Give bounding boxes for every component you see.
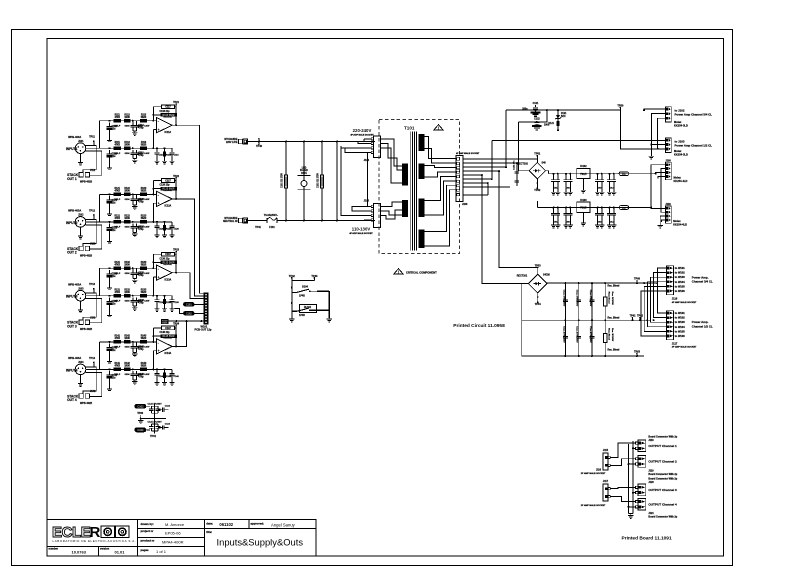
svg-text:22u: 22u xyxy=(112,304,117,306)
svg-text:R115 560R: R115 560R xyxy=(163,114,175,117)
svg-text:BIAS: BIAS xyxy=(162,322,168,325)
svg-text:Printed Board 11.1091: Printed Board 11.1091 xyxy=(622,536,672,542)
svg-text:TP31: TP31 xyxy=(150,435,157,438)
svg-text:47K5: 47K5 xyxy=(114,337,120,340)
svg-text:C1x6: C1x6 xyxy=(165,406,171,408)
svg-text:J120: J120 xyxy=(648,481,654,484)
svg-text:1K00: 1K00 xyxy=(124,117,130,119)
svg-text:470p: 470p xyxy=(138,200,144,203)
svg-text:01.01: 01.01 xyxy=(115,549,126,554)
svg-text:4P AMP MALE SOCKET: 4P AMP MALE SOCKET xyxy=(672,346,697,349)
svg-text:100u: 100u xyxy=(553,188,558,190)
svg-text:R118: R118 xyxy=(166,155,172,157)
svg-text:OUT 4: OUT 4 xyxy=(67,398,77,402)
svg-text:100n: 100n xyxy=(566,221,571,223)
svg-text:562R: 562R xyxy=(141,366,147,368)
svg-text:WPB-403A: WPB-403A xyxy=(68,283,81,287)
svg-text:2P AMP MALE SOCKET: 2P AMP MALE SOCKET xyxy=(581,504,606,507)
svg-text:22u: 22u xyxy=(112,129,117,131)
svg-text:+: + xyxy=(158,128,160,132)
svg-text:-: - xyxy=(158,341,159,345)
svg-text:470p: 470p xyxy=(138,228,144,231)
svg-text:22u: 22u xyxy=(112,156,117,158)
svg-text:22u: 22u xyxy=(112,276,117,278)
svg-text:C102 X2 275V: C102 X2 275V xyxy=(318,173,320,188)
svg-text:1K00: 1K00 xyxy=(124,292,130,294)
svg-text:OUTPUT Channel 2: OUTPUT Channel 2 xyxy=(648,459,677,463)
svg-text:F101: F101 xyxy=(269,226,275,229)
svg-text:to W103: to W103 xyxy=(675,320,686,324)
svg-text:470p: 470p xyxy=(138,127,144,130)
svg-text:to W102: to W102 xyxy=(675,271,686,275)
svg-text:-: - xyxy=(158,193,159,197)
svg-text:TP61: TP61 xyxy=(630,315,637,318)
svg-text:version: version xyxy=(100,547,110,551)
svg-text:C161: C161 xyxy=(186,303,192,306)
svg-text:C116: C116 xyxy=(174,155,180,157)
svg-text:R128: R128 xyxy=(166,228,172,230)
svg-text:BI-LED: BI-LED xyxy=(300,170,308,172)
svg-text:+: + xyxy=(158,349,160,353)
svg-text:R1xx Bleed: R1xx Bleed xyxy=(608,292,610,304)
svg-text:OUTPUT Channel 4: OUTPUT Channel 4 xyxy=(648,502,677,506)
svg-text:22u: 22u xyxy=(112,230,117,232)
svg-text:Channel 1/2 CL: Channel 1/2 CL xyxy=(692,324,713,328)
svg-text:0204: 0204 xyxy=(125,300,131,303)
svg-text:OUT 1: OUT 1 xyxy=(67,177,77,181)
svg-text:TP43: TP43 xyxy=(311,275,318,278)
svg-text:562R: 562R xyxy=(141,145,147,147)
svg-text:C1xx 4700u/50V: C1xx 4700u/50V xyxy=(562,326,565,343)
svg-text:WPB-402B: WPB-402B xyxy=(80,254,92,257)
svg-text:47K5: 47K5 xyxy=(114,144,120,147)
svg-text:C121: C121 xyxy=(533,102,539,105)
svg-text:C1xx 4700u/50V: C1xx 4700u/50V xyxy=(576,326,579,343)
svg-text:C163: C163 xyxy=(137,405,144,408)
svg-text:Power Amp Channel 1/2 CL: Power Amp Channel 1/2 CL xyxy=(675,144,713,148)
svg-text:C1xx 4700u/50V: C1xx 4700u/50V xyxy=(576,290,579,307)
svg-text:J116: J116 xyxy=(596,470,602,472)
svg-text:0204: 0204 xyxy=(125,125,131,128)
svg-text:22u: 22u xyxy=(112,202,117,204)
svg-text:OUTPUT Channel 3: OUTPUT Channel 3 xyxy=(648,488,677,492)
svg-text:100n: 100n xyxy=(597,221,602,223)
svg-text:TP63: TP63 xyxy=(634,350,641,353)
svg-text:CRITICAL COMPONENT: CRITICAL COMPONENT xyxy=(406,270,437,274)
svg-text:Res. Bleed: Res. Bleed xyxy=(608,286,620,288)
svg-text:T6.3A/250V~: T6.3A/250V~ xyxy=(264,214,279,217)
svg-text:C1x5 47u/63V: C1x5 47u/63V xyxy=(148,403,163,406)
svg-text:47K5: 47K5 xyxy=(114,365,120,368)
svg-text:J118: J118 xyxy=(648,439,654,442)
svg-text:IC13A: IC13A xyxy=(165,279,172,282)
svg-text:TP21: TP21 xyxy=(173,101,180,104)
svg-text:TP14: TP14 xyxy=(89,357,96,360)
svg-text:Board Connector With 2p: Board Connector With 2p xyxy=(648,473,677,476)
svg-text:Inputs&Supply&Outs: Inputs&Supply&Outs xyxy=(217,537,304,548)
svg-text:J103: J103 xyxy=(78,287,84,290)
svg-text:Molex: Molex xyxy=(674,175,682,179)
svg-text:1K00: 1K00 xyxy=(124,218,130,220)
svg-text:C141: C141 xyxy=(112,346,118,349)
svg-text:OUT 2: OUT 2 xyxy=(67,251,77,255)
svg-text:IC103: IC103 xyxy=(580,199,587,202)
svg-text:LABORATORIO DE ELECTRO-ACUSTIC: LABORATORIO DE ELECTRO-ACUSTICA S.A. xyxy=(53,539,137,543)
svg-text:TP30: TP30 xyxy=(137,412,144,415)
svg-text:J142: J142 xyxy=(90,390,96,393)
svg-text:+: + xyxy=(158,202,160,206)
svg-text:number: number xyxy=(49,547,59,551)
svg-text:WPB-403A: WPB-403A xyxy=(68,135,81,139)
svg-text:110-130V: 110-130V xyxy=(352,226,371,231)
svg-text:OUT 3: OUT 3 xyxy=(67,325,77,329)
svg-text:INPUT4: INPUT4 xyxy=(66,368,78,372)
svg-text:47K5: 47K5 xyxy=(114,217,120,220)
svg-text:IC11A: IC11A xyxy=(165,131,172,134)
svg-text:TP51: TP51 xyxy=(534,153,541,156)
svg-text:1K00: 1K00 xyxy=(124,338,130,340)
svg-text:D101: D101 xyxy=(301,173,307,175)
svg-text:100n: 100n xyxy=(522,108,528,110)
svg-text:C1xx 4700u/50V: C1xx 4700u/50V xyxy=(589,290,592,307)
svg-text:R1xx Bleed: R1xx Bleed xyxy=(608,328,610,340)
svg-text:562R: 562R xyxy=(141,265,147,267)
svg-text:4P-HDP MALE SOCKET: 4P-HDP MALE SOCKET xyxy=(349,232,373,235)
svg-text:Molex: Molex xyxy=(673,219,681,223)
svg-text:C1x6: C1x6 xyxy=(165,423,171,425)
svg-text:J115: J115 xyxy=(603,449,609,452)
svg-text:product nr: product nr xyxy=(141,539,156,543)
svg-text:IC14A: IC14A xyxy=(165,352,172,355)
svg-text:title:: title: xyxy=(206,530,212,534)
svg-text:TP42: TP42 xyxy=(289,275,296,278)
svg-text:0204: 0204 xyxy=(125,346,131,349)
svg-text:TP54: TP54 xyxy=(535,303,542,306)
svg-text:470p: 470p xyxy=(138,274,144,277)
svg-text:562R: 562R xyxy=(141,218,147,220)
svg-text:C141: C141 xyxy=(112,374,118,377)
svg-text:TP24: TP24 xyxy=(173,322,180,325)
svg-text:Power Amp Channel 3/4 CL: Power Amp Channel 3/4 CL xyxy=(675,113,713,117)
svg-text:562R: 562R xyxy=(141,117,147,119)
svg-text:C162: C162 xyxy=(186,312,192,315)
svg-text:WPB-403A: WPB-403A xyxy=(68,356,81,360)
svg-text:0204: 0204 xyxy=(125,373,131,376)
svg-text:J117: J117 xyxy=(603,480,609,483)
svg-text:47K5: 47K5 xyxy=(114,116,120,119)
svg-text:WPB-402B: WPB-402B xyxy=(80,402,92,405)
svg-text:R138: R138 xyxy=(166,302,172,304)
svg-text:Board Connector With 2p: Board Connector With 2p xyxy=(648,515,677,518)
svg-text:J122: J122 xyxy=(90,243,96,246)
svg-text:C1xx 4700u/50V: C1xx 4700u/50V xyxy=(589,326,592,343)
svg-text:date:: date: xyxy=(206,522,213,526)
svg-text:D121: D121 xyxy=(561,113,567,115)
svg-text:47K5: 47K5 xyxy=(114,291,120,294)
svg-text:4P-HDP MALE SOCKET: 4P-HDP MALE SOCKET xyxy=(350,134,374,137)
svg-text:KK254-3LD: KK254-3LD xyxy=(674,153,688,157)
svg-text:J117: J117 xyxy=(672,342,678,345)
svg-text:KK254-3LD: KK254-3LD xyxy=(674,123,688,127)
svg-text:IC102: IC102 xyxy=(580,165,587,168)
svg-text:KK254-4LD: KK254-4LD xyxy=(674,179,688,183)
svg-text:1 of 1: 1 of 1 xyxy=(156,549,167,554)
svg-text:R121: R121 xyxy=(548,123,554,125)
svg-text:0204: 0204 xyxy=(125,152,131,155)
svg-text:Angel Sanuy: Angel Sanuy xyxy=(271,522,296,527)
svg-text:47K5: 47K5 xyxy=(114,264,120,267)
svg-text:to W106: to W106 xyxy=(675,334,686,338)
svg-text:C138 22p: C138 22p xyxy=(159,258,170,260)
svg-text:Res. Bleed: Res. Bleed xyxy=(608,318,620,320)
svg-text:WPB-402B: WPB-402B xyxy=(80,181,92,184)
svg-text:0204: 0204 xyxy=(125,272,131,275)
svg-text:1K00: 1K00 xyxy=(124,366,130,368)
svg-text:C1x5 47u/63V: C1x5 47u/63V xyxy=(148,421,163,424)
svg-text:C147: C147 xyxy=(165,327,171,330)
svg-text:0204: 0204 xyxy=(125,198,131,201)
svg-text:pages: pages xyxy=(141,548,150,552)
svg-text:J101: J101 xyxy=(78,140,84,143)
svg-text:INPUT1: INPUT1 xyxy=(66,147,78,151)
svg-text:C1xx 4700u/50V: C1xx 4700u/50V xyxy=(562,290,565,307)
svg-text:2P AMP MALE SOCKET: 2P AMP MALE SOCKET xyxy=(581,472,606,475)
svg-text:1K00: 1K00 xyxy=(124,265,130,267)
svg-text:J102: J102 xyxy=(78,214,84,217)
svg-text:J106: J106 xyxy=(462,203,468,206)
svg-text:C117: C117 xyxy=(165,107,171,109)
svg-text:to W104: to W104 xyxy=(675,280,686,284)
svg-text:22u: 22u xyxy=(112,377,117,379)
svg-text:10.0763: 10.0763 xyxy=(72,549,87,554)
svg-text:KK254-4LD: KK254-4LD xyxy=(673,222,687,226)
svg-text:PCB-OUT 12p: PCB-OUT 12p xyxy=(195,328,212,332)
svg-text:EP05-06: EP05-06 xyxy=(165,531,181,536)
svg-text:C126: C126 xyxy=(174,228,180,230)
svg-text:T101: T101 xyxy=(404,126,415,131)
svg-text:TP12: TP12 xyxy=(89,209,96,212)
svg-text:TP13: TP13 xyxy=(89,283,96,286)
svg-text:R125 560R: R125 560R xyxy=(162,188,174,191)
svg-text:IC12A: IC12A xyxy=(165,205,172,208)
svg-text:C146: C146 xyxy=(174,375,180,378)
svg-text:100n: 100n xyxy=(597,188,602,190)
svg-text:C128 22p: C128 22p xyxy=(159,185,170,187)
svg-text:Res. Bleed: Res. Bleed xyxy=(608,350,620,352)
svg-text:J112: J112 xyxy=(90,169,96,172)
svg-text:7915: 7915 xyxy=(580,206,587,210)
svg-text:Printed Circuit 11.0958: Printed Circuit 11.0958 xyxy=(453,323,505,329)
svg-text:J104: J104 xyxy=(78,361,84,364)
svg-text:to W105: to W105 xyxy=(675,329,686,333)
svg-text:562R: 562R xyxy=(141,191,147,193)
svg-text:WPB-403A: WPB-403A xyxy=(68,209,81,213)
svg-text:D104: D104 xyxy=(302,285,308,288)
svg-text:to W106: to W106 xyxy=(675,289,686,293)
svg-text:to W101: to W101 xyxy=(675,311,686,315)
svg-text:C122: C122 xyxy=(534,118,540,121)
svg-text:J108: J108 xyxy=(665,159,671,162)
svg-text:100u: 100u xyxy=(553,221,558,223)
svg-text:220-240V: 220-240V xyxy=(353,128,372,133)
svg-text:project nr: project nr xyxy=(141,529,155,533)
svg-text:TP22: TP22 xyxy=(173,175,180,178)
svg-text:to W103: to W103 xyxy=(675,275,686,279)
svg-text:M. Amorce: M. Amorce xyxy=(165,522,185,527)
svg-text:220V LIVE: 220V LIVE xyxy=(226,141,238,144)
svg-text:562R: 562R xyxy=(141,292,147,294)
svg-text:TP52: TP52 xyxy=(534,189,541,192)
svg-text:R145 560R: R145 560R xyxy=(162,335,174,338)
svg-text:-: - xyxy=(158,120,159,124)
svg-text:RECT102: RECT102 xyxy=(517,163,528,166)
svg-text:470p: 470p xyxy=(138,348,144,351)
svg-text:470p: 470p xyxy=(138,154,144,157)
svg-text:C101 X2 275V: C101 X2 275V xyxy=(282,173,284,188)
svg-text:C137: C137 xyxy=(165,254,171,256)
svg-text:C127: C127 xyxy=(165,180,171,182)
svg-text:TP53: TP53 xyxy=(535,265,542,268)
svg-text:S40: S40 xyxy=(542,162,547,165)
svg-text:R135 560R: R135 560R xyxy=(162,261,174,264)
svg-text:100n: 100n xyxy=(566,188,571,190)
svg-text:BZX: BZX xyxy=(561,116,566,118)
svg-text:TP11: TP11 xyxy=(89,136,95,139)
svg-text:MPA4-400R: MPA4-400R xyxy=(162,540,184,545)
svg-text:to W101: to W101 xyxy=(675,266,686,270)
svg-text:C118 22p: C118 22p xyxy=(160,111,171,113)
svg-text:INPUT2: INPUT2 xyxy=(66,221,78,225)
svg-text:7815: 7815 xyxy=(580,172,587,176)
svg-text:J132: J132 xyxy=(90,316,96,319)
svg-text:22u: 22u xyxy=(112,350,117,352)
svg-text:TP60: TP60 xyxy=(634,278,641,281)
svg-text:S4CM: S4CM xyxy=(543,274,550,277)
svg-text:C136: C136 xyxy=(174,302,180,304)
svg-text:J116: J116 xyxy=(672,298,678,301)
svg-text:1P4D: 1P4D xyxy=(299,295,305,298)
svg-text:TP62: TP62 xyxy=(637,315,644,318)
svg-text:C124 47n: C124 47n xyxy=(513,160,516,170)
svg-text:1K00: 1K00 xyxy=(124,191,130,193)
svg-text:INPUT3: INPUT3 xyxy=(66,295,78,299)
svg-text:to W104: to W104 xyxy=(675,325,686,329)
svg-text:Molex: Molex xyxy=(674,149,682,153)
svg-text:J109: J109 xyxy=(665,203,671,206)
svg-text:approved:: approved: xyxy=(251,522,265,526)
svg-text:J105: J105 xyxy=(364,200,370,203)
svg-text:47K5: 47K5 xyxy=(114,190,120,193)
svg-text:+: + xyxy=(158,275,160,279)
svg-text:061102: 061102 xyxy=(219,522,233,527)
svg-text:TP23: TP23 xyxy=(173,249,180,252)
svg-text:OUTPUT Channel 1: OUTPUT Channel 1 xyxy=(648,444,677,448)
svg-text:Molex: Molex xyxy=(674,120,682,124)
svg-text:WPB-402B: WPB-402B xyxy=(80,328,92,331)
svg-text:470p: 470p xyxy=(138,375,144,378)
svg-text:1P4D: 1P4D xyxy=(299,314,305,317)
svg-text:RECT101: RECT101 xyxy=(517,274,528,277)
svg-text:C142: C142 xyxy=(138,373,144,376)
svg-text:4P AMP MALE SOCKET: 4P AMP MALE SOCKET xyxy=(672,301,697,304)
svg-text:470p: 470p xyxy=(138,302,144,305)
svg-text:Res. 3K3/3W: Res. 3K3/3W xyxy=(611,292,613,306)
svg-text:C142: C142 xyxy=(138,345,144,348)
svg-text:TP40: TP40 xyxy=(256,145,263,148)
svg-text:C148 22p: C148 22p xyxy=(159,331,170,334)
svg-text:to W105: to W105 xyxy=(675,284,686,288)
svg-text:drawn by:: drawn by: xyxy=(141,522,154,526)
svg-text:NEUTRAL IN: NEUTRAL IN xyxy=(223,220,238,223)
svg-text:-: - xyxy=(158,267,159,271)
svg-text:562R: 562R xyxy=(141,338,147,340)
svg-text:0204: 0204 xyxy=(125,226,131,229)
svg-text:TP41: TP41 xyxy=(255,226,261,229)
svg-text:J104: J104 xyxy=(364,159,370,162)
svg-text:LED: LED xyxy=(302,167,307,169)
svg-text:to W102: to W102 xyxy=(675,316,686,320)
svg-text:Channel 3/4 CL: Channel 3/4 CL xyxy=(692,280,713,284)
svg-text:4P AMP MALE SOCKET: 4P AMP MALE SOCKET xyxy=(456,152,480,155)
svg-text:TP50: TP50 xyxy=(617,105,624,108)
svg-text:Res. 3K3/3W: Res. 3K3/3W xyxy=(611,328,613,342)
svg-text:1K00: 1K00 xyxy=(124,145,130,147)
svg-text:C164: C164 xyxy=(137,429,144,432)
